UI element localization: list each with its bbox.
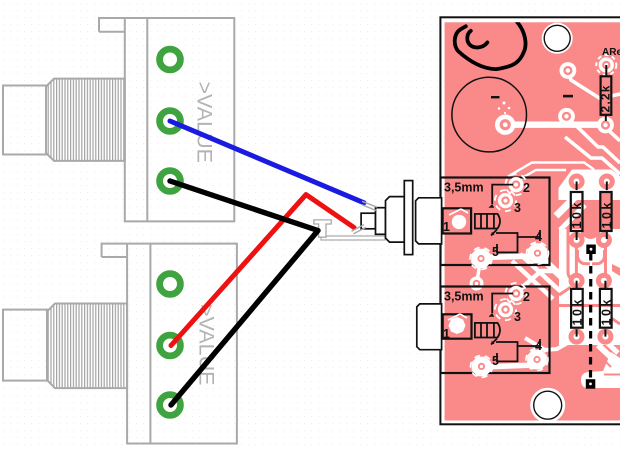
RCA jack J2 body	[102, 244, 237, 444]
pour white stripes behind R2	[556, 184, 588, 216]
J3 internal contacts	[491, 185, 540, 253]
pink trace Y join left	[578, 250, 591, 264]
white band bottom right	[581, 352, 620, 388]
resistor R4 10k	[570, 281, 584, 337]
pad J2-2	[160, 335, 181, 356]
trace g-h vertical left	[575, 239, 579, 281]
pink trace Y join right	[592, 250, 605, 264]
J4 pad pin3	[495, 299, 516, 320]
hand-drawn inner c	[467, 31, 487, 48]
mid pad between jacks	[470, 277, 484, 291]
J3 pad pin3	[495, 190, 516, 211]
J4 pad pin5 octagon	[471, 355, 493, 377]
trace pad c diagonal with jog	[567, 116, 620, 163]
jack footprint J3	[441, 174, 550, 270]
trace jack2 inner	[481, 365, 535, 367]
pad J1-1	[160, 49, 181, 70]
svg-text:3: 3	[514, 310, 521, 324]
pads g below R2 R3	[569, 232, 585, 248]
J3 pin1 box	[443, 208, 472, 233]
resistor R1 2.2k	[599, 65, 613, 121]
svg-text:10k: 10k	[599, 297, 613, 325]
resistor R3 10k	[600, 182, 614, 240]
pad J2-1	[160, 274, 181, 295]
J4 pad pin4 octagon	[526, 349, 548, 371]
pad a	[560, 62, 577, 79]
trace jack2 pin2 to pour	[517, 271, 561, 292]
pink trace diag row2 upper left	[559, 287, 571, 295]
svg-text:ARec: ARec	[602, 47, 620, 58]
trace parallel diagonal	[565, 137, 620, 174]
wire red J2-2 to plug ring	[171, 195, 354, 346]
pads h above R4 R5 (in pour)	[569, 273, 585, 289]
J4 pad pin2	[505, 283, 526, 304]
J4 pin1 box	[443, 314, 472, 338]
trace pad d down-right	[607, 127, 620, 141]
plug barrel	[386, 197, 405, 243]
pad b R1 top	[596, 55, 616, 75]
pad e inside C1	[495, 115, 515, 135]
pink lines in band	[597, 353, 611, 367]
jumper bottom terminal	[586, 379, 596, 389]
svg-text:10k: 10k	[570, 297, 584, 325]
plug sleeve strip	[321, 236, 385, 240]
J3 pad pin5 octagon	[470, 248, 492, 270]
pink trace row2 right	[611, 318, 620, 324]
PCB board outline	[440, 17, 620, 424]
resistor R5 10k	[599, 281, 613, 337]
RCA jack J2 tip	[3, 310, 47, 381]
pink trace left vertical	[568, 229, 574, 280]
svg-text:1: 1	[443, 327, 450, 341]
RCA jack J1 threaded barrel	[46, 79, 125, 161]
J3 pad pin2	[505, 174, 526, 195]
pink trace g-right to h-right	[604, 244, 607, 278]
silk minus mark right	[563, 95, 573, 98]
pink trace horizontal row2	[559, 304, 620, 307]
pink wedge right	[612, 264, 620, 276]
svg-text:3: 3	[514, 201, 521, 215]
trace jack1 pin5 to mid pad	[477, 263, 480, 281]
plug step	[376, 208, 386, 235]
copper pour white region upper right	[559, 170, 620, 201]
pour outline trace upper	[508, 163, 594, 177]
trace from C1 pad to R1 bottom pad	[505, 121, 605, 128]
J4 internal contacts	[491, 294, 540, 362]
svg-text:2: 2	[523, 181, 530, 195]
copper pour white region lower right	[559, 229, 620, 345]
wire blue J1-2 to plug tip	[170, 121, 364, 203]
pad J2-3	[160, 395, 181, 416]
pad d R1 bottom	[597, 117, 614, 134]
pad J1-2	[160, 111, 181, 132]
RCA jack J1 inner divider	[146, 18, 148, 221]
sleeve bracket	[314, 220, 331, 237]
svg-text:3,5mm: 3,5mm	[444, 290, 484, 304]
svg-text:1: 1	[443, 220, 450, 234]
pads i below R4 R5 (in pour)	[569, 329, 585, 345]
hand-drawn blob annotation	[455, 21, 526, 69]
wire black J1-3 and J2-3 to plug sleeve	[170, 181, 318, 405]
resistor R2 10k	[570, 182, 584, 241]
PCB substrate	[445, 22, 620, 420]
jack footprint J4	[441, 283, 550, 378]
pad c	[558, 108, 575, 125]
trace fan diag 2	[520, 254, 560, 291]
capacitor C1 circle	[452, 77, 527, 152]
J3 barrel symbol	[475, 214, 500, 229]
svg-text:10k: 10k	[600, 200, 614, 228]
svg-text:10k: 10k	[570, 200, 584, 228]
trace g-h vertical right	[602, 239, 606, 281]
ring fork	[352, 225, 367, 234]
C1 white specks	[498, 102, 511, 115]
mounting hole top	[542, 23, 573, 54]
plug ring lug box	[361, 213, 375, 229]
jumper top terminal	[586, 245, 596, 255]
RCA jack J2 threaded barrel	[47, 304, 127, 389]
C1 minus mark	[491, 96, 500, 98]
trace i-right diag 2	[598, 345, 616, 362]
jack socket bushing J3	[416, 198, 442, 244]
trace jack1 pin5 to pin4	[481, 256, 535, 258]
trace top pad a diagonal	[568, 72, 620, 99]
trace jack2 inner diag	[525, 338, 571, 350]
svg-text:>VALUE: >VALUE	[193, 82, 217, 163]
svg-text:2: 2	[523, 290, 530, 304]
jack socket bushing J4	[417, 304, 442, 350]
tip fork	[362, 201, 377, 211]
pink island between g pads	[581, 229, 600, 239]
trace fan diag 1	[535, 252, 564, 279]
svg-text:3,5mm: 3,5mm	[444, 181, 484, 195]
pad J1-3	[160, 171, 181, 192]
mounting hole bottom	[530, 388, 565, 423]
pink trace g-left to h-left	[575, 244, 578, 278]
RCA jack J2 inner divider	[149, 244, 151, 444]
svg-text:2,2k: 2,2k	[599, 84, 613, 112]
J3 pin numbers	[443, 181, 542, 259]
J4 pin numbers	[443, 290, 542, 368]
RCA jack J1 tip	[3, 86, 46, 155]
plug flange	[404, 181, 412, 255]
RCA jack J1 body	[99, 18, 234, 221]
pour outline trace lower	[512, 170, 566, 184]
pink traces inside lower pour	[559, 229, 620, 324]
trace i-right diag 1	[605, 341, 618, 353]
J3 pad pin4 octagon	[527, 242, 549, 264]
J4 barrel symbol	[475, 323, 500, 338]
jumper dashed wire	[589, 253, 592, 380]
pads f above R2 R3 (in pour: pink rings)	[569, 174, 585, 190]
trace fan diag 3	[512, 261, 553, 299]
